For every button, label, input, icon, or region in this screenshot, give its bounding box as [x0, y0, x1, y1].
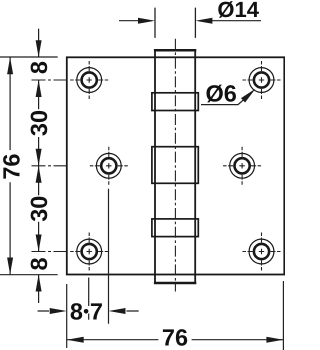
svg-text:8: 8	[26, 61, 52, 74]
svg-text:76: 76	[0, 154, 24, 180]
svg-text:Ø6: Ø6	[206, 81, 237, 107]
svg-text:7: 7	[90, 298, 103, 324]
svg-text:76: 76	[162, 324, 188, 350]
svg-text:Ø14: Ø14	[217, 0, 259, 22]
svg-text:30: 30	[26, 110, 52, 136]
svg-text:8: 8	[70, 298, 83, 324]
svg-text:8: 8	[26, 257, 52, 270]
svg-text:30: 30	[26, 196, 52, 222]
